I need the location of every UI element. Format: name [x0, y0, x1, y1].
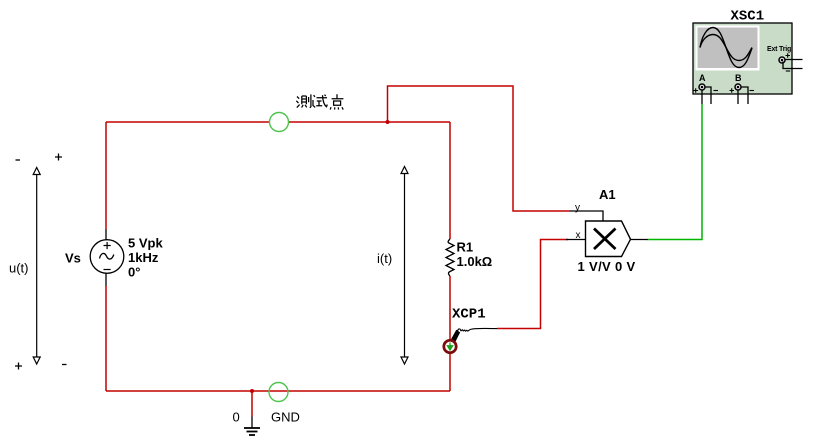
multiplier A1 y-input pin: [569, 211, 603, 221]
label Ext Trig: [767, 46, 791, 53]
wire bottom horizontal: [106, 390, 450, 392]
svg-text:1kHz: 1kHz: [128, 250, 159, 265]
wire green from A1 output to scope channel A: [648, 104, 703, 240]
ext trig terminal: [779, 57, 785, 63]
sign minus channel B: [750, 90, 755, 92]
current probe XCP1 clamp: [450, 328, 498, 344]
arrow u(t): [33, 168, 40, 365]
junction top node: [386, 120, 390, 124]
oscilloscope screen sine waves: [700, 28, 752, 68]
label R1: [457, 240, 474, 255]
ground: [244, 417, 260, 436]
test point circle GND: [269, 383, 288, 402]
resistor R1: [446, 239, 454, 276]
label i(t): [377, 251, 392, 266]
sign minus bottom-right of u(t): [62, 364, 67, 366]
label A1: [599, 187, 616, 202]
svg-text:Vs: Vs: [65, 251, 81, 266]
ground stub wire: [251, 391, 253, 417]
label A: [699, 73, 706, 83]
pin label y: [575, 203, 580, 214]
wire from XCP1 output to A1 x-input: [497, 240, 568, 329]
oscilloscope XSC1 body: [693, 23, 792, 94]
label Vs: [65, 251, 81, 266]
svg-text:1 V/V 0 V: 1 V/V 0 V: [578, 259, 636, 274]
junction bottom ground node: [250, 389, 254, 393]
svg-text:A1: A1: [599, 187, 616, 202]
test point circle 测试点: [270, 113, 289, 132]
svg-text:0: 0: [233, 410, 240, 425]
sign plus channel B: [730, 88, 735, 92]
sign minus channel A: [714, 90, 719, 92]
wire left vertical lower (source bottom to bottom wire): [105, 286, 107, 391]
wire top horizontal from source to R1 branch: [106, 121, 450, 123]
sign minus ext trig: [786, 70, 790, 72]
svg-text:x: x: [576, 230, 581, 241]
svg-text:B: B: [735, 73, 742, 83]
svg-text:1.0kΩ: 1.0kΩ: [457, 254, 493, 269]
sign minus top-left of u(t): [16, 159, 21, 161]
sign plus top-right of u(t): [55, 154, 62, 161]
channel A pins: [702, 87, 711, 104]
svg-text:u(t): u(t): [9, 261, 29, 276]
source Vs pin stubs: [105, 229, 107, 286]
svg-text:XSC1: XSC1: [731, 9, 765, 25]
label 0: [233, 410, 240, 425]
label 1 V/V 0 V: [578, 259, 636, 274]
multiplier A1 output pin: [631, 239, 649, 241]
current probe XCP1 ring: [444, 340, 456, 352]
svg-text:GND: GND: [271, 410, 300, 425]
wire right vertical through R1 and XCP1: [449, 122, 451, 391]
svg-text:A: A: [699, 73, 706, 83]
label XSC1: [731, 9, 765, 25]
label u(t): [9, 261, 29, 276]
ext trig pins: [783, 60, 803, 69]
source Vs body: [90, 240, 124, 274]
label 测试点 (drawn strokes): [296, 94, 343, 109]
label 5 Vpk 1kHz 0deg: [128, 236, 163, 280]
wire from junction up and right to A1 y-input: [388, 86, 570, 211]
svg-text:Ext Trig: Ext Trig: [767, 46, 791, 53]
label B: [735, 73, 742, 83]
arrow i(t): [401, 167, 408, 365]
label GND: [271, 410, 300, 425]
svg-text:y: y: [575, 203, 580, 214]
channel A terminal: [699, 84, 705, 90]
svg-text:XCP1: XCP1: [452, 307, 486, 323]
svg-text:R1: R1: [457, 240, 474, 255]
multiplier A1 body: [586, 221, 631, 257]
wire left vertical upper (source top to top wire): [105, 122, 107, 229]
label 1.0kOhm: [457, 254, 493, 269]
svg-text:0°: 0°: [128, 265, 140, 280]
multiplier A1 x-input pin: [566, 239, 586, 241]
svg-text:i(t): i(t): [377, 251, 392, 266]
sign plus ext trig: [786, 53, 791, 57]
channel B terminal: [735, 84, 741, 90]
pin label x: [576, 230, 581, 241]
label XCP1: [452, 307, 486, 323]
svg-text:5 Vpk: 5 Vpk: [128, 236, 163, 251]
sign plus channel A: [694, 88, 699, 92]
channel B pins: [738, 87, 748, 104]
sign plus bottom-left of u(t): [15, 363, 22, 370]
